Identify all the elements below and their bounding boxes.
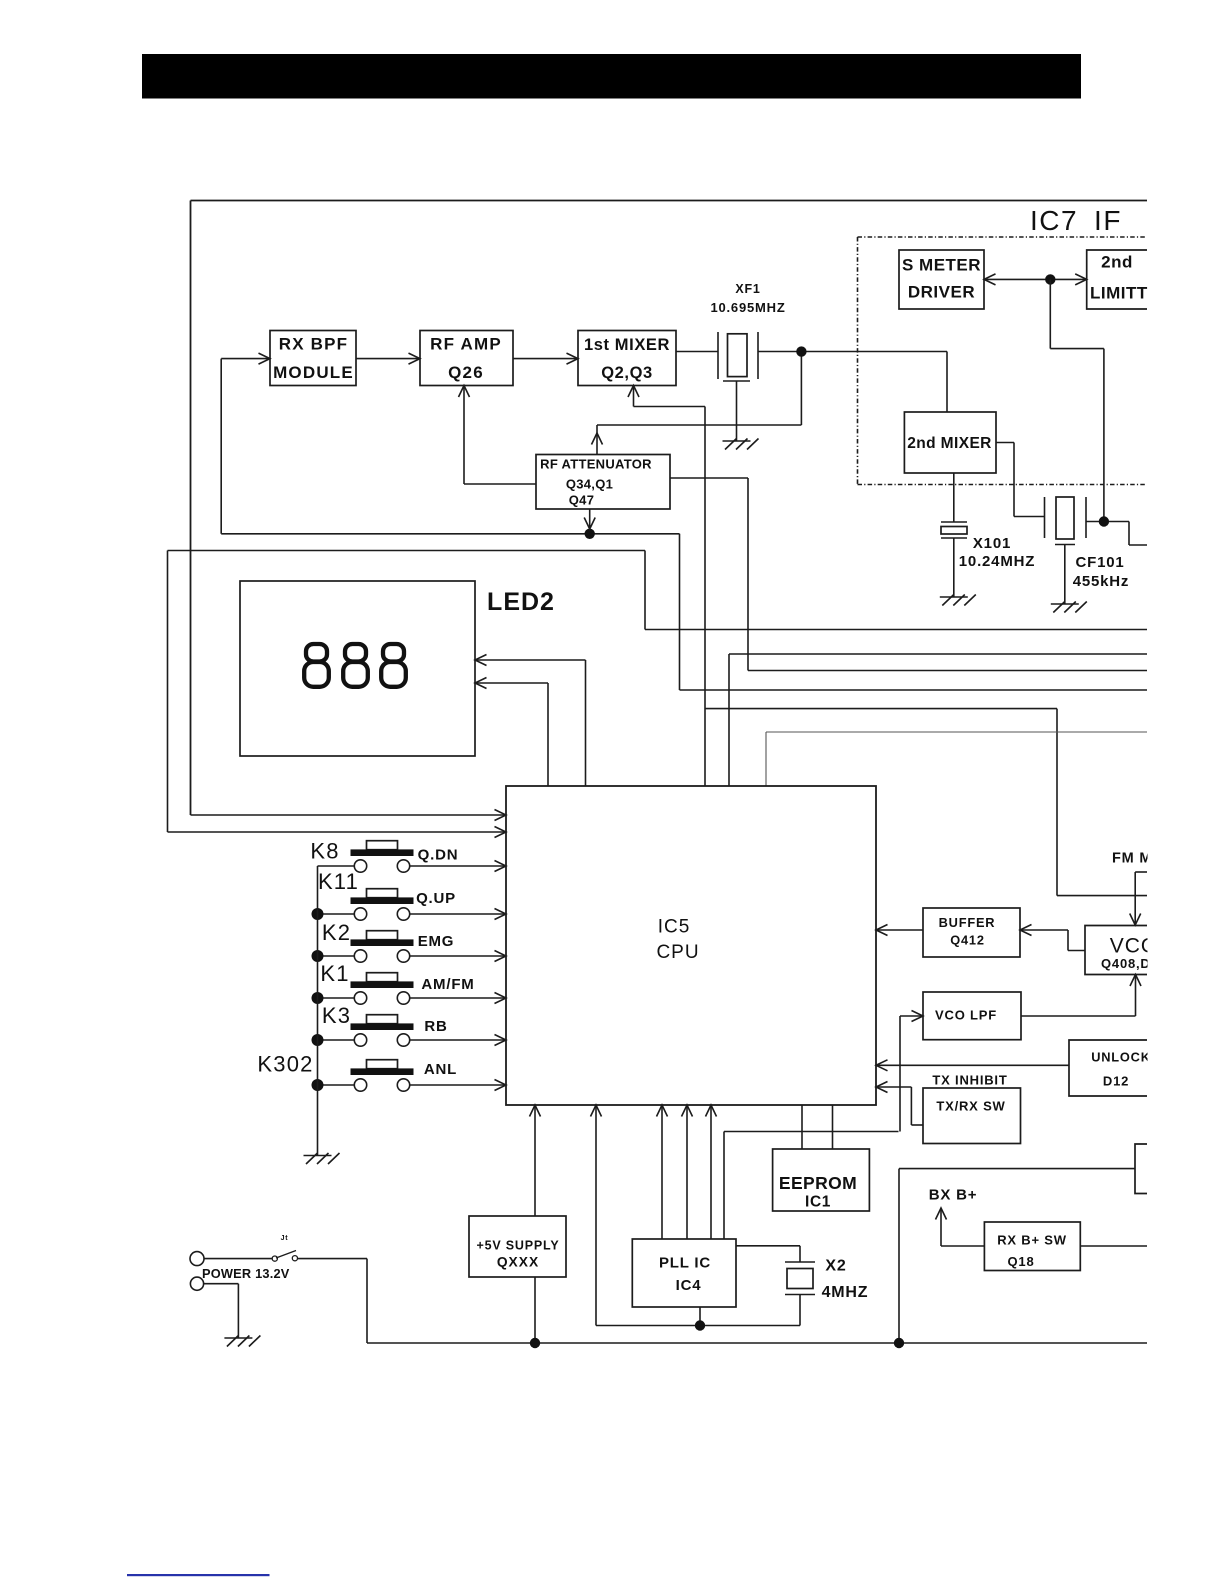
svg-text:Q34,Q1: Q34,Q1 [566, 477, 613, 492]
svg-text:10.24MHZ: 10.24MHZ [959, 553, 1035, 570]
svg-text:RX BPF: RX BPF [279, 335, 349, 354]
svg-text:K3: K3 [322, 1003, 351, 1028]
svg-text:LED2: LED2 [487, 588, 555, 616]
svg-text:IF: IF [1094, 205, 1122, 236]
svg-text:Jt: Jt [281, 1235, 289, 1242]
svg-text:BX B+: BX B+ [929, 1187, 978, 1204]
svg-text:Q47: Q47 [569, 493, 594, 508]
svg-text:EEPROM: EEPROM [779, 1173, 857, 1193]
svg-text:Q18: Q18 [1008, 1254, 1035, 1269]
svg-text:TX INHIBIT: TX INHIBIT [932, 1073, 1007, 1088]
svg-text:D12: D12 [1103, 1074, 1129, 1089]
svg-text:K302: K302 [257, 1052, 313, 1077]
svg-text:QXXX: QXXX [497, 1255, 539, 1270]
svg-text:K8: K8 [310, 839, 339, 864]
svg-text:X2: X2 [825, 1258, 846, 1275]
svg-text:X101: X101 [973, 535, 1011, 552]
svg-text:AM/FM: AM/FM [421, 976, 474, 993]
svg-text:Q2,Q3: Q2,Q3 [601, 364, 653, 382]
svg-text:K1: K1 [320, 961, 349, 986]
svg-text:Q.DN: Q.DN [418, 847, 459, 864]
svg-text:XF1: XF1 [735, 282, 760, 296]
svg-text:IC1: IC1 [805, 1194, 831, 1211]
svg-text:FM M: FM M [1112, 851, 1152, 867]
svg-text:IC7: IC7 [1030, 205, 1078, 236]
svg-text:K2: K2 [322, 920, 351, 945]
svg-text:BUFFER: BUFFER [939, 915, 996, 930]
svg-text:S METER: S METER [902, 256, 981, 275]
svg-text:IC4: IC4 [676, 1277, 702, 1294]
svg-text:ANL: ANL [424, 1061, 457, 1078]
svg-text:1st MIXER: 1st MIXER [584, 336, 670, 354]
svg-text:UNLOCK: UNLOCK [1091, 1050, 1151, 1065]
svg-text:2nd MIXER: 2nd MIXER [907, 435, 992, 452]
svg-text:K11: K11 [318, 869, 359, 894]
svg-text:PLL IC: PLL IC [659, 1255, 711, 1272]
svg-text:Q408,D: Q408,D [1101, 956, 1151, 971]
svg-text:+5V SUPPLY: +5V SUPPLY [477, 1239, 560, 1253]
svg-text:TX/RX SW: TX/RX SW [936, 1099, 1005, 1114]
svg-text:RX B+ SW: RX B+ SW [997, 1233, 1067, 1248]
svg-text:2nd: 2nd [1101, 253, 1133, 272]
svg-text:MODULE: MODULE [273, 363, 354, 382]
svg-text:Q26: Q26 [448, 363, 484, 382]
svg-text:CPU: CPU [656, 942, 699, 963]
svg-text:VCO LPF: VCO LPF [935, 1008, 997, 1023]
svg-text:DRIVER: DRIVER [908, 283, 975, 302]
svg-text:RB: RB [424, 1018, 447, 1035]
svg-text:RF ATTENUATOR: RF ATTENUATOR [540, 457, 652, 472]
svg-text:IC5: IC5 [658, 917, 691, 938]
svg-text:10.695MHZ: 10.695MHZ [710, 300, 785, 315]
svg-text:RF AMP: RF AMP [430, 335, 502, 354]
svg-text:455kHz: 455kHz [1073, 573, 1130, 590]
svg-text:EMG: EMG [418, 933, 455, 950]
svg-text:Q412: Q412 [950, 933, 985, 948]
svg-text:4MHZ: 4MHZ [822, 1284, 869, 1301]
svg-text:CF101: CF101 [1075, 554, 1124, 571]
svg-text:POWER 13.2V: POWER 13.2V [202, 1266, 290, 1281]
svg-text:Q.UP: Q.UP [416, 890, 456, 907]
